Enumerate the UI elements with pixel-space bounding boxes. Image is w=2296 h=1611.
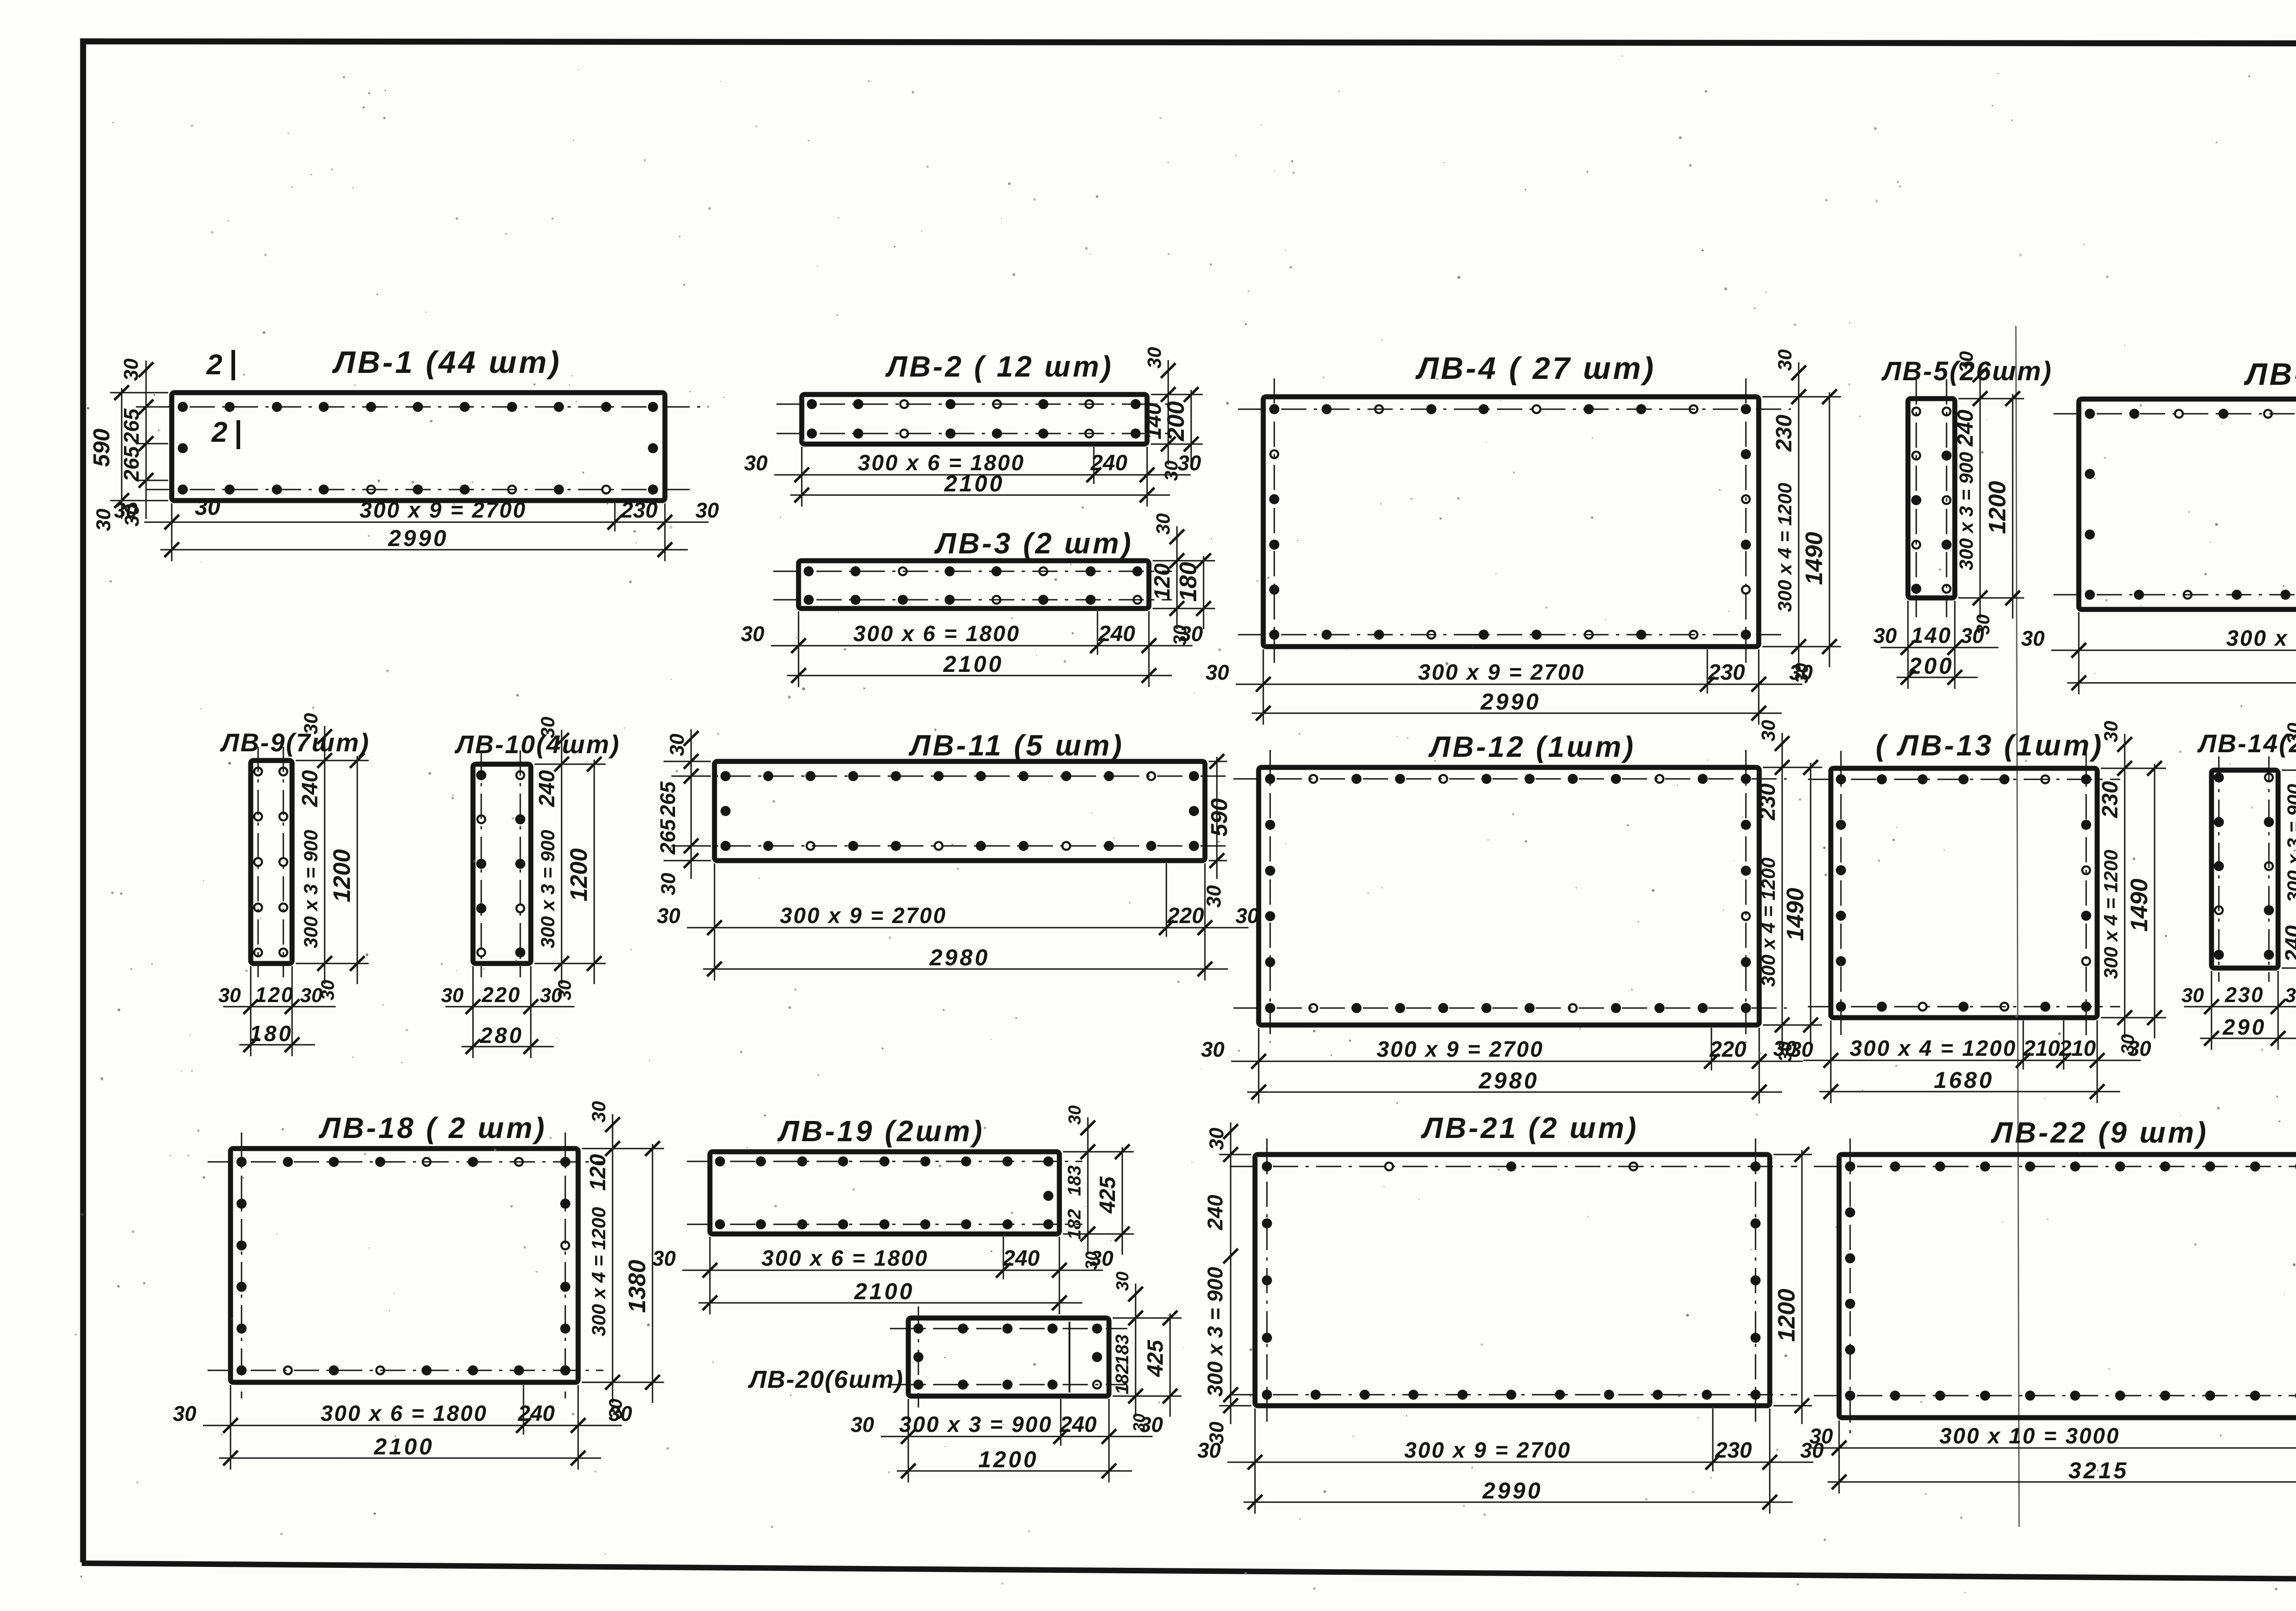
svg-text:1200: 1200 [566,848,592,901]
svg-text:2100: 2100 [373,1434,434,1459]
svg-text:1380: 1380 [624,1260,651,1313]
svg-text:2: 2 [211,417,227,448]
svg-text:30: 30 [1973,614,1993,635]
svg-text:30: 30 [2283,723,2296,744]
svg-text:30: 30 [652,1246,676,1270]
svg-text:30: 30 [1205,1127,1228,1150]
svg-text:265: 265 [119,408,143,444]
svg-text:30: 30 [2118,1034,2138,1055]
svg-text:230: 230 [2098,781,2122,818]
svg-text:210: 210 [2023,1036,2060,1061]
svg-text:2990: 2990 [1480,689,1541,715]
svg-text:180: 180 [249,1022,293,1046]
svg-text:30: 30 [195,494,220,520]
svg-text:120: 120 [1150,563,1175,600]
svg-text:1200: 1200 [1984,481,2011,534]
svg-text:300 x 3 = 900: 300 x 3 = 900 [2283,784,2296,902]
svg-text:1490: 1490 [2126,879,2153,932]
svg-text:ЛВ-2 ( 12 шт): ЛВ-2 ( 12 шт) [885,350,1113,383]
svg-text:2980: 2980 [929,945,990,970]
svg-text:30: 30 [744,451,768,475]
svg-text:265: 265 [656,781,680,817]
svg-text:30: 30 [173,1402,197,1425]
svg-text:240: 240 [518,1402,555,1426]
svg-text:ЛВ-22 (9 шт): ЛВ-22 (9 шт) [1991,1116,2208,1149]
svg-text:300 x 9 = 2700: 300 x 9 = 2700 [1404,1438,1571,1463]
svg-text:240: 240 [1090,451,1127,475]
svg-text:300 x 9 = 2700: 300 x 9 = 2700 [2226,626,2296,651]
svg-text:ЛВ-21 (2 шт): ЛВ-21 (2 шт) [1421,1111,1638,1144]
svg-text:265: 265 [119,445,143,482]
svg-text:200: 200 [1163,401,1189,442]
svg-text:30: 30 [1809,1424,1833,1448]
svg-text:30: 30 [1757,720,1779,742]
svg-text:1490: 1490 [1782,888,1809,941]
svg-text:140: 140 [1911,624,1952,648]
svg-text:210: 210 [2059,1036,2096,1061]
svg-text:120: 120 [586,1154,610,1191]
svg-text:30: 30 [1201,1037,1225,1061]
svg-text:30: 30 [1143,347,1165,369]
svg-text:ЛВ-4 ( 27 шт): ЛВ-4 ( 27 шт) [1415,351,1656,386]
svg-text:1200: 1200 [978,1447,1038,1472]
svg-text:30: 30 [1873,624,1897,648]
svg-text:30: 30 [555,980,575,1001]
svg-text:240: 240 [1098,622,1135,646]
svg-text:30: 30 [1082,1251,1101,1270]
vertical fold crease [2016,326,2019,1527]
svg-text:240: 240 [1953,410,1978,447]
svg-text:300 x 4 = 1200: 300 x 4 = 1200 [1774,483,1795,612]
svg-text:230: 230 [2224,983,2264,1007]
svg-text:300 x 10 = 3000: 300 x 10 = 3000 [1939,1424,2120,1448]
svg-text:300 x 3 = 900: 300 x 3 = 900 [1955,452,1977,570]
svg-text:183: 183 [1112,1335,1132,1365]
svg-text:1680: 1680 [1934,1067,1994,1093]
svg-text:30: 30 [441,984,464,1007]
svg-text:30: 30 [2182,984,2204,1007]
svg-text:ЛВ-3 (2 шт): ЛВ-3 (2 шт) [934,527,1133,560]
svg-text:300 x 9 = 2700: 300 x 9 = 2700 [1418,660,1585,685]
svg-text:300 x 3 = 900: 300 x 3 = 900 [300,830,321,948]
svg-text:300 x 6 = 1800: 300 x 6 = 1800 [853,622,1020,646]
svg-text:ЛВ-12 (1шт): ЛВ-12 (1шт) [1428,730,1636,763]
svg-text:300 x 9 = 2700: 300 x 9 = 2700 [780,904,947,928]
svg-text:240: 240 [2281,925,2296,963]
svg-text:180: 180 [1175,562,1202,602]
svg-text:300 x 6 = 1800: 300 x 6 = 1800 [321,1402,488,1426]
svg-text:30: 30 [695,498,719,522]
svg-text:30: 30 [741,622,765,646]
svg-text:183: 183 [1064,1166,1085,1196]
svg-text:30: 30 [606,1399,626,1419]
svg-text:300 x 9 = 2700: 300 x 9 = 2700 [360,498,527,523]
svg-text:30: 30 [1792,663,1812,684]
svg-text:300 x 4 = 1200: 300 x 4 = 1200 [2100,850,2122,979]
svg-text:300 x 3 = 900: 300 x 3 = 900 [899,1413,1052,1437]
svg-text:ЛВ-14(2шт): ЛВ-14(2шт) [2197,729,2296,758]
svg-text:590: 590 [1206,798,1232,837]
svg-text:1200: 1200 [329,849,355,902]
svg-text:30: 30 [657,904,681,928]
svg-text:2100: 2100 [944,471,1004,496]
svg-text:300 x 4 = 1200: 300 x 4 = 1200 [1850,1036,2017,1061]
svg-text:300 x 3 = 900: 300 x 3 = 900 [537,830,558,948]
svg-text:300 x 6 = 1800: 300 x 6 = 1800 [761,1246,929,1271]
svg-text:2990: 2990 [1482,1478,1542,1504]
svg-text:30: 30 [1773,1036,1797,1060]
svg-text:30: 30 [588,1101,609,1123]
svg-text:30: 30 [657,873,680,895]
svg-text:240: 240 [298,770,322,807]
svg-text:230: 230 [620,498,658,523]
svg-text:30: 30 [1205,660,1229,684]
svg-text:182: 182 [1112,1364,1132,1395]
svg-text:30: 30 [1113,1272,1132,1291]
svg-text:30: 30 [1203,885,1225,907]
svg-text:30: 30 [300,713,321,735]
svg-text:30: 30 [92,508,115,531]
svg-text:30: 30 [1955,351,1977,373]
svg-text:230: 230 [1772,415,1796,452]
svg-text:240: 240 [1203,1194,1227,1230]
svg-text:230: 230 [1756,783,1780,821]
svg-text:30: 30 [2285,984,2296,1007]
svg-text:30: 30 [318,980,338,1001]
svg-text:230: 230 [1708,660,1745,685]
svg-text:425: 425 [1096,1176,1120,1214]
svg-text:425: 425 [1143,1340,1168,1377]
svg-text:30: 30 [1170,625,1190,646]
svg-text:30: 30 [537,717,558,738]
svg-text:300 x 4 = 1200: 300 x 4 = 1200 [1757,857,1779,986]
svg-text:220: 220 [1709,1037,1746,1062]
svg-text:220: 220 [1167,904,1204,928]
svg-text:590: 590 [89,428,114,467]
svg-text:230: 230 [1715,1438,1752,1463]
svg-text:30: 30 [219,984,241,1007]
svg-text:220: 220 [481,983,521,1007]
svg-text:240: 240 [1059,1413,1097,1437]
svg-text:ЛВ-11 (5 шт): ЛВ-11 (5 шт) [908,729,1124,762]
svg-text:30: 30 [1130,1414,1148,1432]
svg-text:( ЛВ-13 (1шт): ( ЛВ-13 (1шт) [1876,729,2104,762]
svg-text:1200: 1200 [1773,1289,1800,1342]
svg-text:ЛВ-1 (44 шт): ЛВ-1 (44 шт) [332,345,562,380]
svg-text:30: 30 [850,1413,874,1436]
svg-text:30: 30 [666,733,688,756]
svg-text:ЛВ-18 ( 2 шт): ЛВ-18 ( 2 шт) [318,1111,546,1144]
svg-text:30: 30 [2100,721,2122,743]
svg-text:200: 200 [1908,653,1954,679]
svg-text:30: 30 [120,358,142,381]
svg-text:30: 30 [1774,349,1795,371]
svg-text:30: 30 [1152,513,1174,535]
svg-text:30: 30 [121,504,143,526]
svg-text:2990: 2990 [388,525,448,551]
svg-text:2100: 2100 [943,651,1003,677]
svg-text:1490: 1490 [1801,532,1828,585]
svg-text:30: 30 [1235,904,1259,928]
svg-text:300 x 3 = 900: 300 x 3 = 900 [1203,1267,1227,1397]
svg-text:ЛВ-9(7шт): ЛВ-9(7шт) [219,728,370,757]
svg-text:2100: 2100 [854,1279,914,1304]
svg-text:ЛВ-19 (2шт): ЛВ-19 (2шт) [777,1115,985,1148]
svg-text:30: 30 [1205,1421,1228,1444]
svg-text:300 x 4 = 1200: 300 x 4 = 1200 [588,1207,609,1336]
svg-text:30: 30 [2021,626,2045,650]
svg-text:30: 30 [1065,1105,1085,1125]
svg-text:265: 265 [656,818,680,855]
svg-text:ЛВ-20(6шт): ЛВ-20(6шт) [748,1366,904,1393]
svg-text:2: 2 [206,349,222,381]
svg-text:182: 182 [1064,1209,1085,1240]
svg-text:300 x 9 = 2700: 300 x 9 = 2700 [1377,1037,1544,1062]
svg-text:240: 240 [1002,1246,1040,1271]
svg-text:ЛВ-6 (2шт): ЛВ-6 (2шт) [2243,357,2296,392]
svg-text:240: 240 [535,770,559,807]
svg-text:30: 30 [1161,461,1182,481]
svg-text:290: 290 [2222,1015,2266,1040]
svg-text:280: 280 [479,1024,523,1048]
svg-text:120: 120 [255,983,294,1007]
svg-text:2980: 2980 [1478,1068,1539,1093]
